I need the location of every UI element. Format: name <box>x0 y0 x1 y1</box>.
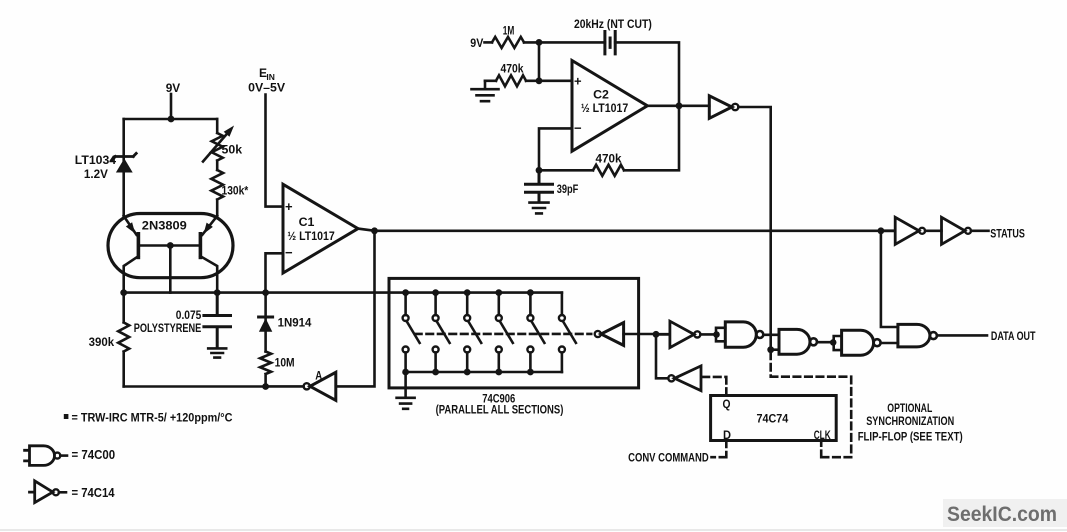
svg-text:A: A <box>315 369 322 383</box>
label footnote star <box>64 414 69 419</box>
svg-text:20kHz (NT CUT): 20kHz (NT CUT) <box>574 17 652 31</box>
resistor 470k (input) <box>485 75 572 86</box>
watermark SeekIC.com <box>943 499 1067 527</box>
svg-text:9V: 9V <box>470 36 483 50</box>
gate NAND2 74C00 <box>779 329 810 354</box>
switch section 2 <box>432 289 449 375</box>
wire box inverter input from data line <box>624 333 656 336</box>
wire C1 output drop to inverter A <box>336 231 375 387</box>
svg-text:130k*: 130k* <box>222 184 249 198</box>
transistor Q1b base bar <box>199 234 203 258</box>
transistor Q1a collector lead <box>124 256 139 292</box>
svg-text:470k: 470k <box>596 151 622 165</box>
node E_IN minus junction on bus <box>262 289 269 296</box>
inverter STATUS first (74C14) <box>881 217 919 244</box>
transistor Q1a left half of 2N3809: emitter lead with arrow <box>124 216 137 235</box>
resistor 1M <box>492 37 524 48</box>
node shared base junction <box>167 242 174 249</box>
scan edge line at page bottom <box>0 529 1067 531</box>
node 9V rail junction <box>168 116 175 123</box>
wire main summing bus <box>124 291 562 294</box>
gate NAND3 74C00 <box>842 330 874 355</box>
wire inverter to NAND1 inputs <box>700 328 725 342</box>
gate NAND4 74C00 <box>898 324 930 347</box>
svg-text:0V–5V: 0V–5V <box>248 81 285 95</box>
transistor Q1a base lead <box>138 244 170 247</box>
resistor 10M <box>260 352 271 387</box>
svg-text:74C74: 74C74 <box>757 412 789 426</box>
wire bottom feedback rail <box>124 385 266 388</box>
capacitor 20kHz (NT CUT) <box>605 32 615 54</box>
node clock to NAND2 lower input junction <box>767 346 774 353</box>
svg-text:−: − <box>574 121 582 136</box>
svg-text:CLK: CLK <box>814 428 831 442</box>
inverter STATUS second (74C14) <box>942 217 965 244</box>
transistor Q1b right half of 2N3809: emitter lead with arrow <box>202 216 217 235</box>
svg-text:POLYSTYRENE: POLYSTYRENE <box>134 321 202 335</box>
ground below switch box <box>397 372 415 409</box>
legend inverter symbol = 74C14 <box>30 481 53 503</box>
wire C2 output <box>647 105 709 108</box>
capacitor 0.075 polystyrene <box>204 293 231 348</box>
diode 1N914 <box>259 317 273 332</box>
wire 9V to 1M <box>485 41 493 44</box>
wire DATA OUT lead <box>937 334 987 337</box>
wire C1 output <box>358 229 375 231</box>
svg-text:½ LT1017: ½ LT1017 <box>287 229 335 243</box>
svg-text:10M: 10M <box>275 356 295 370</box>
svg-text:(PARALLEL ALL SECTIONS): (PARALLEL ALL SECTIONS) <box>436 403 564 417</box>
switch section 6 <box>559 293 576 372</box>
node data line junction <box>653 331 660 338</box>
74C906 analog switch box <box>389 278 639 388</box>
svg-text:+: + <box>285 199 293 214</box>
node bottom rail / inverter A output junction <box>262 383 269 390</box>
svg-text:39pF: 39pF <box>557 182 579 196</box>
dashed wire Q output of 74C74 to sync inverter <box>703 377 727 396</box>
node feedback / 39pF junction <box>536 167 543 174</box>
resistor 470k (feedback) <box>539 106 679 176</box>
svg-text:D: D <box>723 428 731 442</box>
gate NAND1 74C00 <box>725 322 756 347</box>
wire C1 output to status rail <box>375 230 881 233</box>
resistor 50k (variable) <box>212 119 223 170</box>
inverter in 74C906 box (pointing left) <box>601 323 624 346</box>
wire status rail drop to NAND4 upper input <box>881 231 898 327</box>
ground below 39pF <box>530 203 549 214</box>
node C1 output junction <box>371 227 378 234</box>
wire NAND1 output to NAND2 upper input <box>763 333 779 336</box>
zener diode LT1034 1.2V <box>112 153 136 172</box>
svg-text:STATUS: STATUS <box>990 226 1025 240</box>
resistor 130k* <box>211 170 223 216</box>
resistor 390k <box>118 293 129 387</box>
dashed wire clock junction to CLK pin <box>771 353 852 458</box>
ground below 0.075 capacitor <box>208 348 226 357</box>
node plus input junction <box>536 77 543 84</box>
node status rail to NAND4 junction <box>878 227 885 234</box>
wire diode to 10M <box>264 293 267 352</box>
op-amp C1 1/2 LT1017 <box>283 184 358 273</box>
svg-text:50k: 50k <box>222 143 243 157</box>
svg-text:+: + <box>574 74 582 89</box>
svg-text:SeekIC.com: SeekIC.com <box>947 503 1057 526</box>
svg-text:OPTIONAL: OPTIONAL <box>887 401 932 415</box>
wire clock junction stub to NAND2 lower input <box>771 348 779 351</box>
svg-text:FLIP-FLOP (SEE TEXT): FLIP-FLOP (SEE TEXT) <box>858 429 963 443</box>
wire STATUS lead <box>971 230 989 233</box>
wire E_IN input drop <box>266 95 284 207</box>
transistor Q1a base bar <box>137 234 141 258</box>
node 1M / 470k junction <box>536 39 543 46</box>
wire C1 inverting input drop <box>266 253 284 292</box>
svg-text:C1: C1 <box>299 215 315 229</box>
wire NAND2 output to NAND3 inputs <box>817 336 842 350</box>
svg-text:1M: 1M <box>503 23 515 37</box>
arrow of 50k potentiometer <box>203 132 229 162</box>
op-amp C2 1/2 LT1017 <box>572 61 647 152</box>
svg-text:1N914: 1N914 <box>278 316 312 330</box>
svg-text:Q: Q <box>723 397 731 411</box>
wire clock line from inverter down to NAND2 <box>738 107 770 350</box>
wire feedback junction up to minus input <box>539 128 572 170</box>
wire 9V supply drop <box>170 94 173 119</box>
switch section 3 <box>464 289 481 375</box>
svg-text:390k: 390k <box>89 335 115 349</box>
inverter before NAND1 (74C14) <box>656 321 694 347</box>
wire between STATUS inverters <box>925 230 941 233</box>
wire inverter A output to bottom rail <box>266 385 304 388</box>
svg-text:½ LT1017: ½ LT1017 <box>581 101 629 115</box>
node C2 output junction <box>676 102 683 109</box>
wire top rail left section <box>124 118 218 121</box>
2N3809 package outline oval <box>108 214 233 278</box>
svg-text:1.2V: 1.2V <box>84 167 108 181</box>
wire data node down to sync inverter <box>656 334 668 378</box>
svg-text:LT1034: LT1034 <box>75 153 117 167</box>
wire NAND3 output to NAND4 lower input <box>881 342 898 345</box>
dashed gang line of switches <box>415 333 591 336</box>
inverter after C2 (74C14) <box>709 96 732 119</box>
svg-text:9V: 9V <box>166 81 181 95</box>
switch section 4 <box>495 289 512 375</box>
wire switch bottom bus <box>406 371 562 374</box>
svg-text:−: − <box>285 245 293 260</box>
svg-text:DATA OUT: DATA OUT <box>991 329 1036 343</box>
wire capacitor to C2 output node <box>615 42 679 105</box>
svg-text:= 74C14: = 74C14 <box>72 486 115 500</box>
svg-text:2N3809: 2N3809 <box>142 218 187 232</box>
transistor Q1b collector lead <box>200 256 217 292</box>
flip-flop U2 74C74 box <box>711 396 837 441</box>
node left collector to bus junction <box>120 289 127 296</box>
svg-text:SYNCHRONIZATION: SYNCHRONIZATION <box>866 414 954 428</box>
ground at 470k input resistor <box>472 81 499 101</box>
wire shared base drop to bus <box>169 246 172 293</box>
svg-text:= 74C00: = 74C00 <box>72 448 116 462</box>
switch section 5 <box>527 289 544 375</box>
switch section 1 <box>402 289 419 375</box>
wire left branch down to zener <box>122 119 125 216</box>
capacitor 39pF <box>526 170 553 202</box>
node NAND3 input tie junction <box>830 339 837 346</box>
node right collector to bus junction <box>214 289 221 296</box>
svg-text:C2: C2 <box>593 88 609 102</box>
transistor Q1b base lead <box>170 244 200 247</box>
svg-text:CONV COMMAND: CONV COMMAND <box>628 451 709 465</box>
wire junction down to plus input <box>538 42 541 80</box>
node NAND1 input tie junction <box>713 331 720 338</box>
inverter sync feedback (pointing left) <box>668 375 674 381</box>
svg-text:= TRW-IRC MTR-5/ +120ppm/°C: = TRW-IRC MTR-5/ +120ppm/°C <box>72 413 233 425</box>
dashed wire CONV COMMAND to D pin <box>712 441 727 458</box>
legend NAND gate symbol = 74C00 <box>25 446 55 466</box>
wire 1M to 20kHz capacitor <box>524 41 605 44</box>
inverter A (74C14, pointing left) <box>310 372 336 400</box>
svg-text:470k: 470k <box>501 62 524 76</box>
